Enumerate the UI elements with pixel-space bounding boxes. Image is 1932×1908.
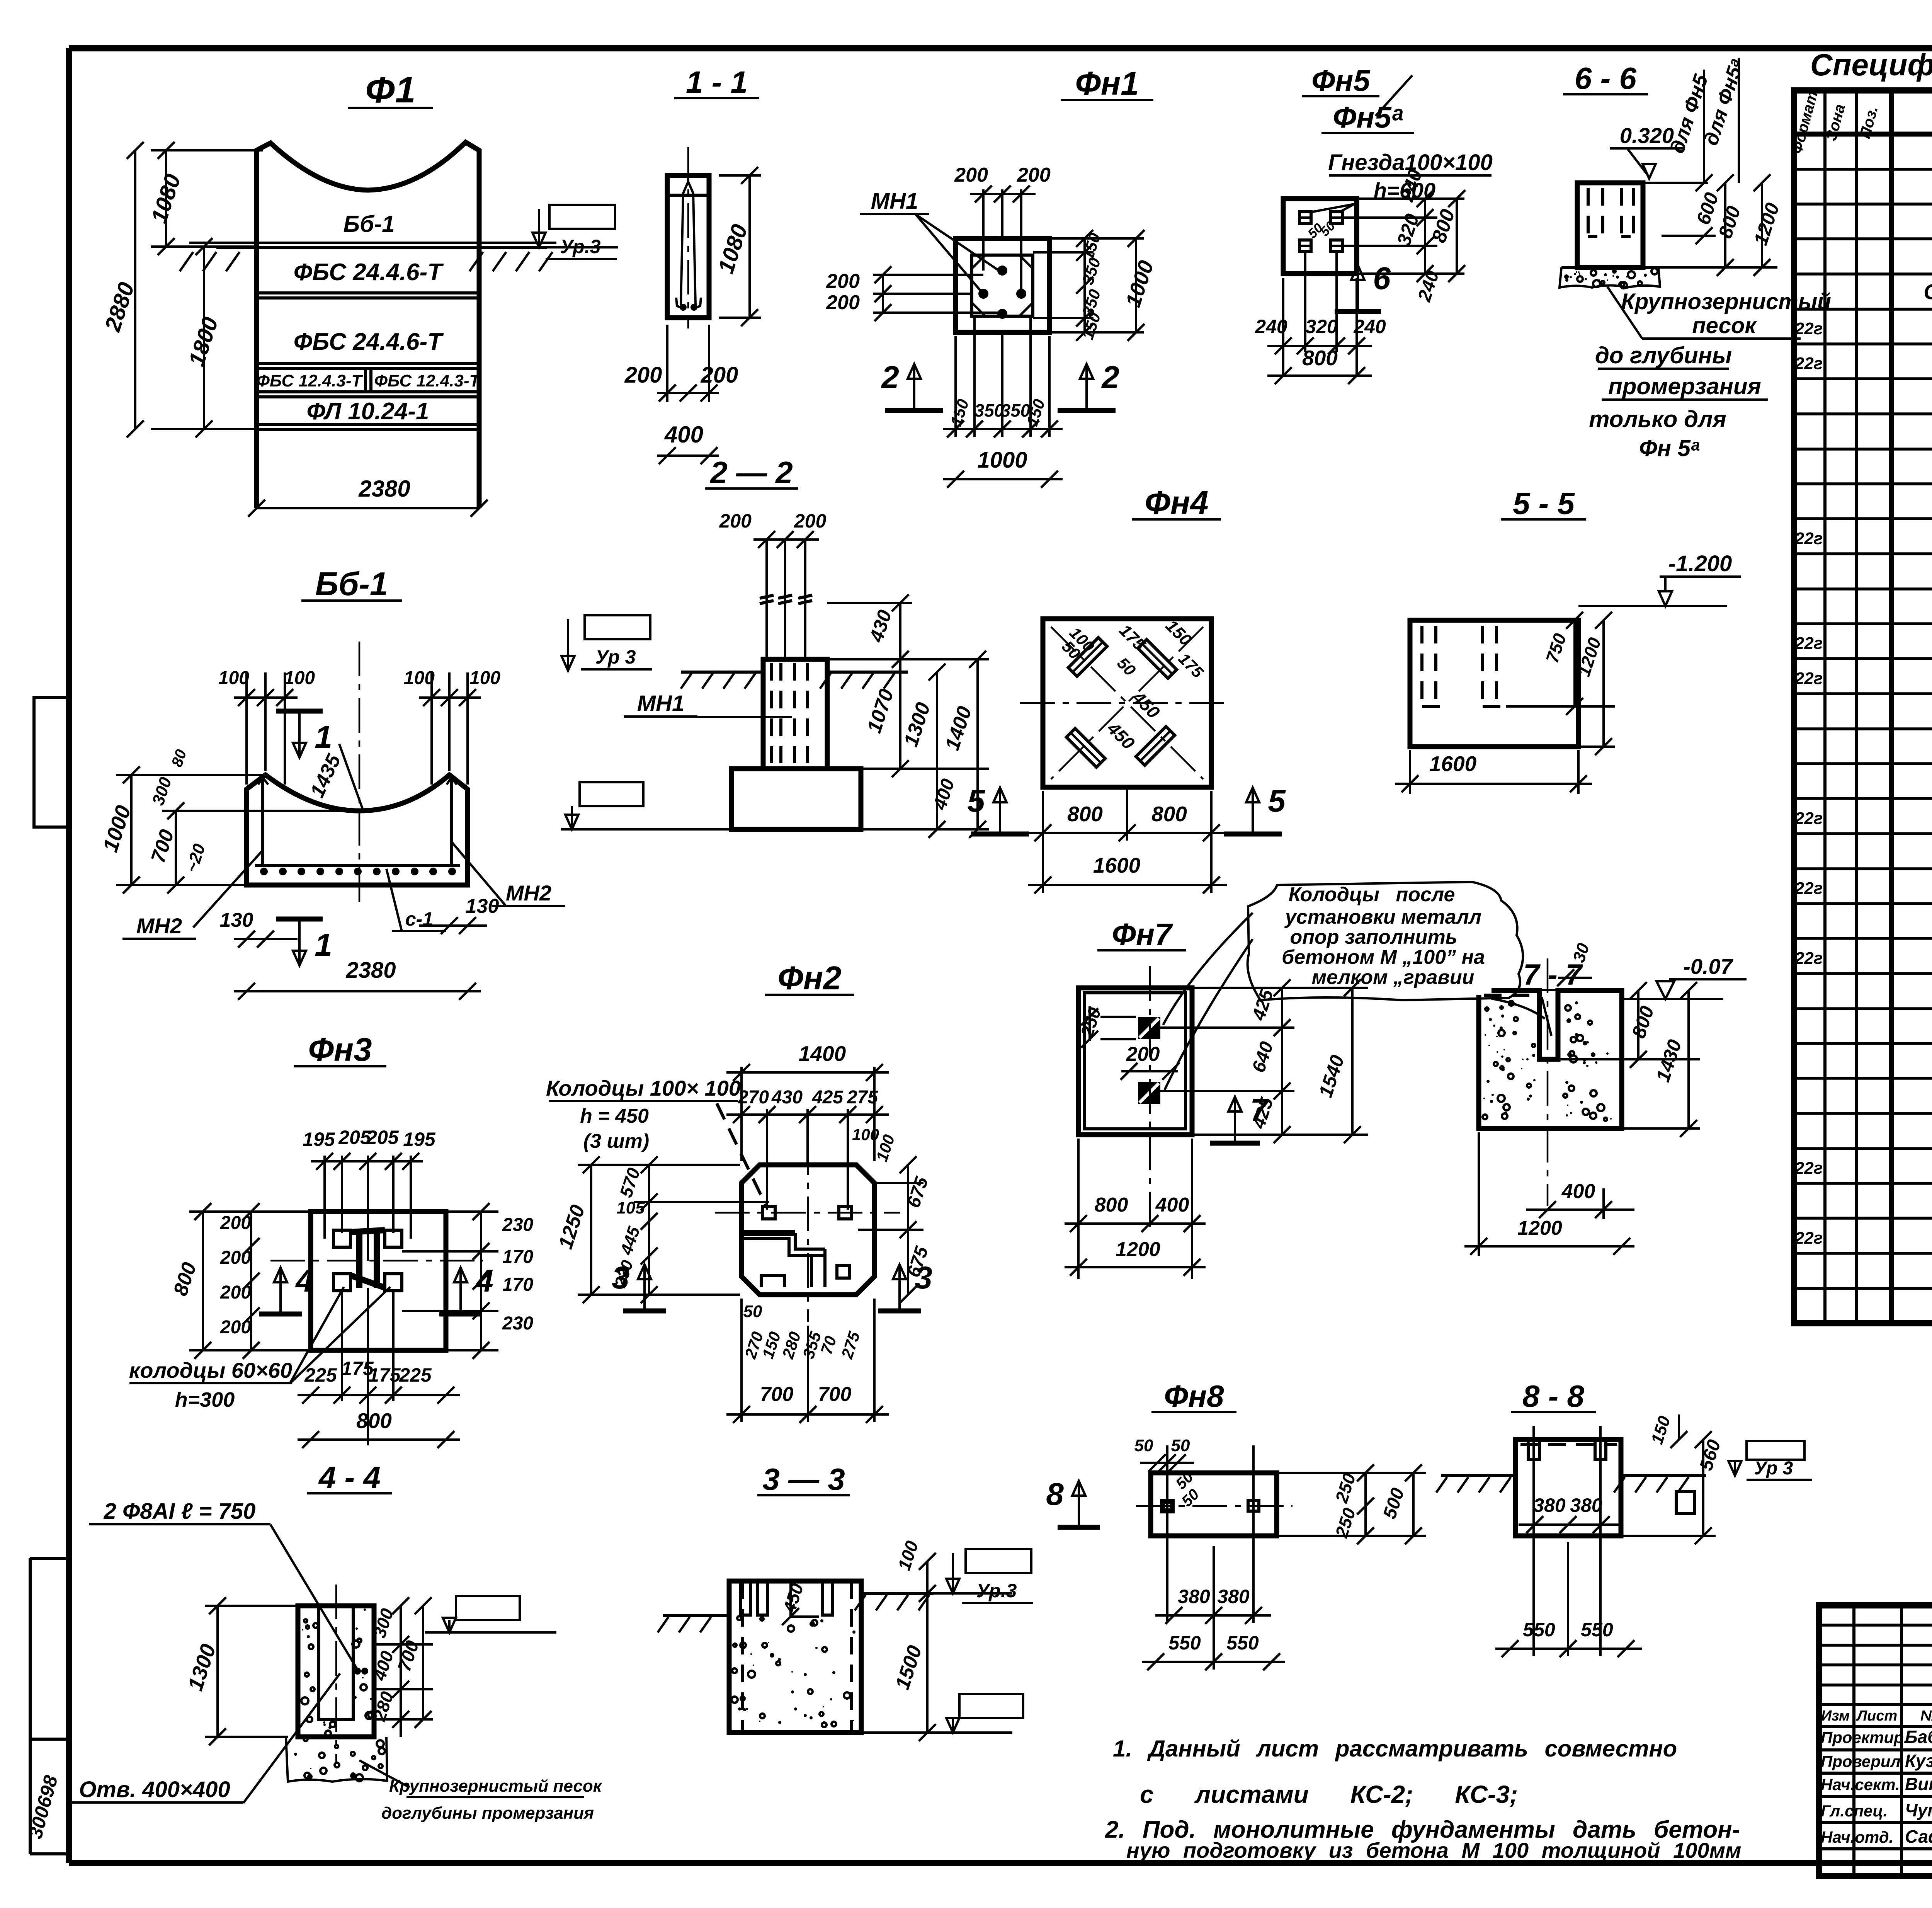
5-5 right dims 750 1200	[1573, 620, 1576, 706]
svg-text:350: 350	[975, 400, 1004, 420]
cloud leaders	[1163, 913, 1253, 1025]
1-1 dim 400	[657, 454, 719, 457]
svg-text:Ур.3: Ур.3	[976, 1580, 1017, 1602]
Бб-1 MH2 anchors	[261, 777, 264, 865]
Фн2 right dims 675 675	[907, 1165, 909, 1295]
svg-text:ФБС 12.4.3-Т: ФБС 12.4.3-Т	[374, 371, 481, 390]
Бб-1 bottom mesh line	[255, 864, 460, 867]
Фн8 section mark 8	[1058, 1525, 1100, 1530]
svg-text:175: 175	[368, 1364, 401, 1386]
Бб-1 dim 2380	[234, 990, 481, 992]
svg-text:6 - 6: 6 - 6	[1575, 61, 1637, 95]
svg-text:230: 230	[502, 1313, 533, 1334]
8-8 slots	[1528, 1440, 1539, 1460]
Ф1 dim 2880	[134, 150, 136, 429]
svg-text:22г: 22г	[1794, 1229, 1823, 1248]
Фн1 right dim 1000	[1135, 238, 1137, 332]
svg-text:h=300: h=300	[175, 1388, 235, 1411]
Бб-1 radius 1435	[339, 744, 362, 808]
7-7 block	[1479, 991, 1622, 1128]
svg-text:100: 100	[404, 668, 435, 688]
Фн7 embed plates	[1138, 1017, 1160, 1039]
Фн4 slots	[1068, 638, 1107, 676]
svg-text:1600: 1600	[1093, 853, 1141, 877]
sheet frame	[69, 45, 1932, 51]
svg-text:230: 230	[502, 1215, 533, 1235]
svg-text:(3 шт): (3 шт)	[583, 1130, 649, 1152]
Ф1 dim 1800	[203, 247, 205, 429]
Фн5 section mark 6	[1335, 309, 1381, 314]
svg-text:2: 2	[1101, 360, 1119, 395]
svg-text:100: 100	[284, 668, 315, 688]
svg-text:4: 4	[295, 1263, 313, 1299]
Фн2 top dims 1400 / 270 430 425 275	[740, 1067, 743, 1161]
svg-text:Изм: Изм	[1821, 1708, 1850, 1724]
svg-text:425: 425	[812, 1087, 844, 1108]
svg-text:промерзания: промерзания	[1608, 373, 1761, 399]
svg-text:22г: 22г	[1794, 879, 1823, 898]
svg-text:380: 380	[1533, 1494, 1566, 1516]
Фн8 rect	[1151, 1473, 1277, 1536]
8-8 dims 550 550	[1495, 1648, 1642, 1650]
svg-text:Нач.сект.: Нач.сект.	[1821, 1775, 1900, 1794]
3-3 level Ур.3 top	[966, 1549, 1031, 1573]
Ф1 block layer lines	[257, 291, 479, 294]
svg-text:200: 200	[220, 1282, 251, 1303]
svg-text:МН2: МН2	[136, 914, 182, 938]
svg-text:Колодцы после: Колодцы после	[1289, 883, 1455, 906]
svg-text:Сафронова: Сафронова	[1905, 1826, 1932, 1847]
Бб-1 top dims 100 100 right	[430, 672, 433, 785]
svg-text:5: 5	[1268, 783, 1286, 819]
svg-text:1 - 1: 1 - 1	[686, 65, 748, 99]
svg-text:4 - 4: 4 - 4	[318, 1460, 381, 1494]
svg-text:колодцы 60×60: колодцы 60×60	[129, 1358, 292, 1382]
svg-text:Фн8: Фн8	[1164, 1379, 1224, 1413]
2-2 ground line	[681, 671, 763, 674]
svg-text:3: 3	[915, 1260, 932, 1295]
svg-text:380: 380	[1570, 1494, 1602, 1516]
svg-text:Бб-1: Бб-1	[315, 566, 388, 603]
Ф1 dim 2380	[257, 507, 479, 509]
svg-text:22г: 22г	[1794, 634, 1823, 653]
svg-text:Колодцы 100× 100: Колодцы 100× 100	[546, 1076, 741, 1100]
svg-text:400: 400	[1561, 1180, 1595, 1203]
2-2 lower level mark	[580, 782, 643, 806]
svg-text:800: 800	[1067, 802, 1103, 826]
Фн7 dims 250 200	[1088, 1006, 1091, 1041]
Бб-1 centerline	[359, 642, 361, 908]
svg-text:8: 8	[1046, 1477, 1064, 1512]
1-1 dims 200 200	[657, 392, 719, 394]
svg-text:1: 1	[315, 720, 332, 755]
svg-text:800: 800	[1095, 1194, 1128, 1216]
6-6 rotated для Фн5 labels	[1703, 70, 1705, 183]
svg-text:430: 430	[771, 1087, 803, 1108]
3-3 ground lines	[663, 1614, 729, 1617]
svg-text:Гл.спец.: Гл.спец.	[1821, 1802, 1888, 1820]
Фн7 centerline	[1149, 966, 1151, 1229]
Бб-1 left dims	[130, 775, 133, 885]
svg-text:с листами КС-2; КС-3;: с листами КС-2; КС-3;	[1140, 1780, 1518, 1808]
title block left sign table	[1852, 1605, 1855, 1876]
svg-text:ФБС 24.4.6-Т: ФБС 24.4.6-Т	[294, 328, 444, 355]
svg-text:Отв. 400×400: Отв. 400×400	[79, 1777, 230, 1802]
svg-text:240: 240	[1353, 316, 1386, 337]
Фн4 bottom dims 800 800 1600	[1042, 791, 1044, 893]
Фн8 bottom dims 380 380 550 550	[1155, 1614, 1271, 1617]
Фн3 section marks 4	[259, 1312, 302, 1317]
Фн1 inner square	[972, 255, 1033, 316]
svg-text:МН1: МН1	[637, 691, 684, 716]
svg-text:200: 200	[701, 363, 738, 388]
Фн4 diagonals centerlines	[1051, 627, 1203, 779]
svg-text:МН1: МН1	[871, 189, 918, 214]
4-4 centerline	[335, 1585, 337, 1762]
6-6 right dims 600 800 1200	[1696, 174, 1713, 191]
svg-text:Фн3: Фн3	[308, 1031, 372, 1068]
svg-text:Ур 3: Ур 3	[1754, 1458, 1793, 1479]
8-8 ground lines	[1441, 1474, 1515, 1477]
Фн7 bottom dims 800 400 1200	[1077, 1139, 1080, 1279]
Бб-1 top dims 100 100 left	[245, 672, 248, 785]
Ф1 dim 1080	[165, 150, 167, 247]
1-1 rebar loop	[681, 182, 696, 305]
Фн7 outer rect	[1078, 988, 1192, 1135]
4-4 subgrade	[286, 1737, 387, 1782]
svg-text:200: 200	[826, 270, 860, 293]
svg-text:3 — 3: 3 — 3	[762, 1462, 845, 1496]
svg-text:Ур 3: Ур 3	[595, 646, 636, 668]
2-2 footing	[731, 769, 861, 829]
svg-text:1200: 1200	[1116, 1238, 1160, 1261]
7-7 speckles	[1514, 1032, 1516, 1034]
4-4 level mark	[456, 1596, 520, 1620]
svg-text:1200: 1200	[1517, 1217, 1562, 1239]
Ф1 level mark Ур.3	[549, 205, 615, 229]
Фн2 centerlines	[715, 1212, 900, 1214]
Фн1 top dims 200 200	[982, 189, 985, 271]
svg-text:-0.07: -0.07	[1683, 954, 1733, 979]
svg-text:до глубины: до глубины	[1595, 342, 1732, 368]
svg-text:200: 200	[826, 291, 860, 314]
Фн7 right dims 425 640 425 1540	[1281, 988, 1283, 1135]
svg-text:1. Данный лист рассматривать: 1. Данный лист рассматривать совместно	[1113, 1736, 1677, 1762]
svg-text:195: 195	[303, 1128, 335, 1150]
3-3 dim 1500	[926, 1593, 929, 1733]
7-7 centerline	[1547, 958, 1549, 1206]
svg-text:№ докум.: № докум.	[1920, 1708, 1932, 1724]
Фн2 left dims	[648, 1165, 650, 1295]
cloud note колодцы после установки	[1248, 882, 1523, 1000]
8-8 block	[1515, 1440, 1621, 1536]
3-3 dim 450	[789, 1583, 792, 1617]
svg-text:100: 100	[469, 668, 500, 688]
Фн3 square	[311, 1212, 446, 1350]
Фн2 channel	[744, 1230, 795, 1236]
2-2 dims 200 200	[753, 538, 819, 541]
svg-text:320: 320	[1305, 316, 1338, 337]
svg-text:Бабаева: Бабаева	[1905, 1727, 1932, 1747]
Фн5 square	[1283, 199, 1357, 274]
svg-text:550: 550	[1168, 1632, 1201, 1654]
svg-text:Фн5ᵃ: Фн5ᵃ	[1333, 100, 1403, 134]
7-7 bottom dims 400 1200	[1526, 1208, 1634, 1211]
2-2 right dims	[899, 603, 901, 769]
svg-text:225: 225	[304, 1364, 337, 1386]
svg-text:бетоном М „100” на: бетоном М „100” на	[1282, 946, 1485, 968]
svg-text:8 - 8: 8 - 8	[1522, 1379, 1585, 1413]
3-3 lower level mark	[959, 1694, 1023, 1718]
svg-text:22г: 22г	[1794, 949, 1823, 968]
svg-text:h = 450: h = 450	[580, 1105, 649, 1127]
Фн2 octagon outline	[742, 1165, 874, 1295]
6-6 dashed slots	[1587, 188, 1590, 237]
svg-text:5: 5	[967, 783, 985, 819]
svg-text:195: 195	[403, 1128, 436, 1150]
svg-text:1400: 1400	[799, 1042, 846, 1065]
svg-text:240: 240	[1255, 316, 1287, 337]
svg-text:2380: 2380	[345, 958, 396, 983]
svg-text:МН2: МН2	[506, 881, 551, 905]
1-1 element outline	[667, 175, 709, 318]
5-5 block	[1410, 620, 1578, 747]
svg-text:22г: 22г	[1794, 809, 1823, 828]
svg-text:доглубины промерзания: доглубины промерзания	[381, 1804, 594, 1823]
Фн8 centerlines	[1136, 1505, 1293, 1507]
Фн7 inner rect	[1084, 993, 1185, 1129]
4-4 right dims	[400, 1606, 402, 1737]
Фн1 section marks 2	[885, 408, 943, 413]
svg-text:550: 550	[1523, 1619, 1555, 1641]
2-2 rebar dowels	[765, 541, 768, 659]
Фн1 outer square	[956, 238, 1049, 332]
svg-text:только для: только для	[1589, 406, 1726, 432]
svg-text:Фн7: Фн7	[1112, 917, 1173, 951]
Фн3 bottom dims 225 175 175 225	[341, 1291, 343, 1401]
svg-text:песок: песок	[1692, 313, 1757, 338]
svg-text:Фн4: Фн4	[1145, 485, 1209, 521]
Фн3 right dims 230 170 170 230	[480, 1212, 482, 1350]
svg-text:ФБС 24.4.6-Т: ФБС 24.4.6-Т	[294, 259, 444, 286]
Бб-1 bottom dims 130	[234, 938, 298, 940]
svg-text:200: 200	[220, 1213, 251, 1233]
svg-text:2 — 2: 2 — 2	[709, 455, 793, 490]
svg-text:270: 270	[738, 1087, 769, 1108]
Фн8 right dims 250 250 500	[1364, 1473, 1367, 1536]
svg-text:200: 200	[954, 164, 988, 186]
8-8 dims 380 380	[1519, 1523, 1619, 1526]
svg-text:800: 800	[1302, 346, 1338, 370]
5-5 bottom dim 1600	[1395, 783, 1592, 785]
Бб-1 mesh dots	[260, 868, 268, 875]
Бб-1 saddle outline	[247, 775, 468, 885]
svg-text:200: 200	[1126, 1043, 1160, 1065]
svg-text:5 - 5: 5 - 5	[1513, 486, 1575, 521]
svg-text:Фн 5ᵃ: Фн 5ᵃ	[1639, 435, 1700, 461]
svg-text:2380: 2380	[358, 476, 410, 502]
2-2 level Ур.3	[585, 615, 650, 639]
svg-text:7 - 7: 7 - 7	[1523, 958, 1583, 991]
2-2 column	[763, 659, 827, 769]
svg-text:100: 100	[852, 1125, 879, 1144]
svg-text:170: 170	[502, 1247, 533, 1267]
svg-text:Крупнозернистый песок: Крупнозернистый песок	[389, 1777, 603, 1796]
svg-text:200: 200	[1017, 164, 1051, 186]
svg-text:550: 550	[1226, 1632, 1259, 1654]
svg-text:800: 800	[1151, 802, 1187, 826]
svg-text:Φ1: Φ1	[365, 70, 416, 111]
svg-text:22г: 22г	[1794, 354, 1823, 373]
Фн7 section mark 7 right	[1210, 1141, 1260, 1146]
6-6 block	[1577, 183, 1643, 267]
svg-text:мелком „гравии: мелком „гравии	[1312, 966, 1475, 989]
Фн4 section marks 5	[971, 832, 1029, 837]
Фн4 square	[1043, 619, 1211, 787]
svg-text:700: 700	[818, 1383, 852, 1406]
svg-text:Фн1: Фн1	[1075, 65, 1139, 102]
svg-text:опор заполнить: опор заполнить	[1290, 926, 1457, 948]
4-4 dim 1300	[216, 1606, 219, 1737]
Фн3 centerline	[270, 1260, 483, 1262]
svg-text:Проектир.: Проектир.	[1821, 1728, 1908, 1746]
Ф1 ground line	[189, 242, 556, 244]
svg-text:400: 400	[1155, 1194, 1189, 1216]
svg-text:2: 2	[881, 360, 899, 395]
svg-text:400: 400	[664, 422, 703, 448]
5-5 dashed slots	[1420, 626, 1423, 706]
svg-text:100: 100	[218, 668, 249, 688]
svg-text:205: 205	[366, 1127, 399, 1148]
8-8 small rect window	[1676, 1491, 1695, 1513]
4-4 rebar dots	[354, 1668, 361, 1675]
svg-text:Серия 1112-5 выпуск 1: Серия 1112-5 выпуск 1	[1923, 279, 1932, 304]
svg-text:Лист: Лист	[1856, 1708, 1897, 1724]
Фн3 wells	[333, 1230, 350, 1247]
svg-text:установки металл: установки металл	[1284, 906, 1481, 928]
svg-text:1: 1	[315, 928, 332, 963]
svg-text:50: 50	[1171, 1436, 1190, 1455]
svg-text:200: 200	[624, 363, 662, 388]
svg-text:2 Ф8АI ℓ = 750: 2 Ф8АI ℓ = 750	[104, 1499, 256, 1524]
svg-text:50: 50	[1134, 1436, 1153, 1455]
svg-text:200: 200	[220, 1317, 251, 1338]
svg-text:200: 200	[220, 1248, 251, 1268]
svg-text:200: 200	[719, 510, 752, 532]
svg-text:ФБС 12.4.3-Т: ФБС 12.4.3-Т	[257, 371, 363, 390]
svg-text:Фн5: Фн5	[1311, 63, 1371, 97]
svg-text:22г: 22г	[1794, 529, 1823, 548]
Фн3 top dims 195 205 205 195	[323, 1156, 326, 1239]
svg-text:0.320: 0.320	[1620, 123, 1674, 148]
svg-text:1000: 1000	[977, 448, 1027, 473]
svg-text:380: 380	[1178, 1586, 1210, 1607]
Ф1 block outline with saddle top	[257, 142, 479, 247]
svg-text:ФЛ 10.24-1: ФЛ 10.24-1	[307, 398, 429, 425]
svg-text:700: 700	[760, 1383, 794, 1406]
svg-text:4: 4	[475, 1263, 493, 1299]
svg-text:130: 130	[220, 909, 253, 931]
3-3 dashed formwork lines	[741, 1581, 744, 1733]
Фн1 embed dots МН1	[997, 266, 1007, 276]
Фн1 bottom dims	[954, 336, 957, 437]
left margin stamp boxes	[34, 698, 69, 827]
svg-text:Витвинская: Витвинская	[1905, 1774, 1932, 1794]
svg-text:-1.200: -1.200	[1668, 551, 1732, 576]
6-6 sand bed	[1561, 266, 1658, 269]
3-3 block	[729, 1581, 861, 1733]
4-4 walls	[298, 1606, 374, 1737]
svg-text:800: 800	[356, 1409, 392, 1433]
svg-text:3: 3	[612, 1260, 629, 1295]
1-1 centerline	[687, 147, 689, 328]
svg-text:170: 170	[502, 1275, 533, 1295]
Фн1 right dims 150 350 350 150	[1083, 238, 1086, 332]
svg-text:Нач.отд.: Нач.отд.	[1821, 1828, 1893, 1846]
svg-text:Проверил: Проверил	[1821, 1752, 1901, 1770]
svg-text:275: 275	[847, 1087, 878, 1108]
svg-text:22г: 22г	[1794, 669, 1823, 688]
svg-text:Спецификация изделий арма: Спецификация изделий арматуры и бетона	[1810, 48, 1932, 82]
Фн8 small squares	[1162, 1500, 1173, 1512]
svg-text:Чумаков: Чумаков	[1905, 1800, 1932, 1820]
svg-text:380: 380	[1217, 1586, 1250, 1607]
svg-text:1600: 1600	[1429, 752, 1477, 776]
svg-text:50: 50	[743, 1302, 762, 1321]
Бб-1 section mark 1 top	[276, 709, 323, 714]
svg-text:225: 225	[399, 1364, 432, 1386]
svg-text:Бб-1: Бб-1	[344, 211, 395, 237]
7-7 notch leader	[1542, 997, 1551, 1036]
Фн5 right dims	[1424, 199, 1426, 274]
7-7 right dims 800 1430	[1637, 991, 1639, 1059]
Фн5 bottom dims	[1282, 278, 1284, 377]
1-1 dim 1080	[748, 175, 751, 318]
svg-text:550: 550	[1581, 1619, 1613, 1641]
3-3 top slots	[740, 1581, 750, 1615]
title block outline	[1819, 1605, 1932, 1876]
Фн5 gnezda squares	[1299, 212, 1311, 223]
Фн3 left dims 200x4 800	[250, 1212, 252, 1350]
svg-text:с-1: с-1	[405, 908, 433, 930]
8-8 right level Ур 3	[1747, 1441, 1804, 1460]
Фн1 left dims 200 200	[882, 275, 884, 313]
svg-text:Кузнецова: Кузнецова	[1905, 1751, 1932, 1771]
Бб-1 section mark 1 bottom	[276, 917, 323, 922]
spec table grid	[1794, 90, 1932, 1323]
svg-text:6: 6	[1373, 261, 1391, 296]
svg-text:Фн2: Фн2	[778, 960, 842, 997]
svg-text:200: 200	[794, 510, 827, 532]
Фн2 wells squares	[763, 1207, 775, 1219]
svg-text:22г: 22г	[1794, 1159, 1823, 1178]
Фн8 top dims 50 50	[1140, 1462, 1194, 1464]
svg-text:22г: 22г	[1794, 319, 1823, 338]
svg-text:ную подготовку из бетона М 10: ную подготовку из бетона М 100 толщиной …	[1126, 1838, 1741, 1862]
Фн2 section marks 3	[623, 1309, 666, 1314]
